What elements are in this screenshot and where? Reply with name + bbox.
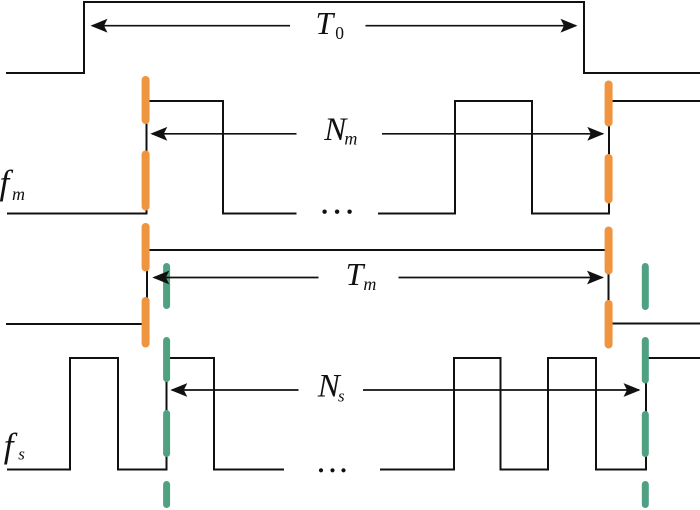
svg-text:m: m [344,128,357,148]
arrow T0 shaft right [366,25,577,27]
waveform fs right part [380,358,700,470]
waveform fs left part [7,358,284,470]
arrow Nm head right [587,127,604,141]
label fs [4,426,26,465]
svg-text:0: 0 [335,23,344,43]
svg-text:m: m [12,184,25,204]
waveform fm left part [7,101,297,214]
arrow T0 head right [561,19,578,33]
svg-text:s: s [338,387,345,406]
arrow Ns head left [170,383,187,397]
arrow Nm shaft right [382,133,603,135]
arrow Tm shaft left [154,277,319,279]
ellipsis row fm [322,210,351,214]
arrow Tm head right [587,271,604,285]
arrow Tm head left [152,271,169,285]
ellipsis row fs [319,468,346,472]
arrow T0 head left [91,19,108,33]
green dashed marker right [642,267,649,505]
orange dashed marker right [605,85,613,345]
arrow Nm shaft left [152,133,297,135]
label Nm [323,112,357,148]
svg-text:T: T [316,5,336,41]
svg-text:m: m [363,274,376,294]
arrow Ns shaft left [172,389,299,391]
label Tm [346,256,377,294]
svg-text:s: s [18,444,25,463]
waveform fm right part [378,101,700,214]
arrow Ns shaft right [363,389,639,391]
arrow Tm shaft right [399,277,603,279]
arrow Nm head left [150,127,167,141]
label T0 [316,5,345,43]
label Ns [317,368,345,405]
arrow T0 shaft left [92,25,290,27]
green dashed marker left [163,267,170,505]
orange dashed marker left [142,80,150,344]
waveform T0 row [6,2,700,73]
label fm [0,163,25,204]
waveform Tm row [6,250,700,324]
arrow Ns head right [624,383,641,397]
svg-text:f: f [4,426,18,465]
